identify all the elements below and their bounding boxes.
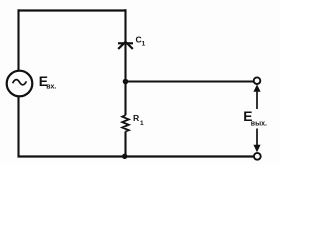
label E_vyx	[243, 109, 267, 127]
wire left vertical lower	[17, 96, 19, 157]
svg-text:1: 1	[140, 120, 144, 127]
svg-text:R: R	[133, 113, 140, 123]
wire resistor top lead	[124, 82, 126, 116]
terminal bottom-right	[254, 153, 261, 160]
wire bottom horizontal	[18, 155, 254, 157]
capacitor C1	[118, 42, 133, 49]
svg-text:вых.: вых.	[251, 121, 267, 128]
svg-text:вх.: вх.	[46, 83, 56, 90]
arrow down	[253, 129, 260, 153]
label E_vx	[39, 74, 57, 90]
wire middle horizontal	[126, 81, 255, 83]
node junction A (mid)	[123, 79, 129, 85]
ac source E_vx	[7, 71, 33, 97]
label C1	[136, 35, 146, 48]
wire right vertical upper (through capacitor)	[124, 9, 126, 81]
resistor R1	[122, 115, 129, 131]
node junction B (bottom)	[122, 154, 127, 159]
wire top horizontal	[18, 9, 127, 11]
arrow up	[253, 84, 260, 109]
terminal top-right	[254, 77, 261, 84]
wire resistor bottom lead	[124, 131, 126, 156]
label R1	[133, 113, 144, 127]
wire left vertical upper	[17, 9, 19, 71]
svg-text:1: 1	[142, 41, 146, 48]
